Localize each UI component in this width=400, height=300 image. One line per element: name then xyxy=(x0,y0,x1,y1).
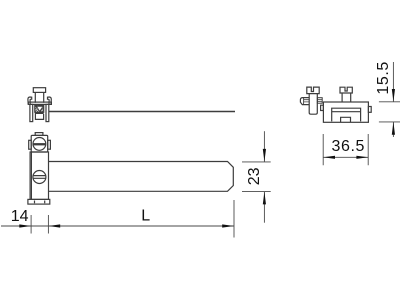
plan view: screw 1 slot xyxy=(33,143,45,145)
side view: left screw head xyxy=(307,87,319,94)
dimension 23: lower tail xyxy=(263,192,265,223)
svg-text:15.5: 15.5 xyxy=(375,61,392,95)
arrow 15.5 bottom (points up) xyxy=(392,122,395,135)
front view: screw neck xyxy=(35,92,43,102)
arrow 23 top (points down) xyxy=(263,149,266,162)
front view: left wing xyxy=(28,97,32,104)
side view: top screw head xyxy=(340,87,352,93)
front view: left leg xyxy=(30,104,33,121)
plan view: foot ticks xyxy=(35,201,45,204)
dimension L: extension line left xyxy=(47,215,49,234)
plan view: screw 2 circle xyxy=(33,171,46,184)
plan view: busbar with chamfered end xyxy=(49,162,234,192)
dimension 36.5: extension lines xyxy=(323,134,368,165)
side view: right ridge block xyxy=(317,98,322,104)
svg-text:36.5: 36.5 xyxy=(332,138,366,155)
dimension L: extension line right xyxy=(233,200,235,238)
front view: lower tray xyxy=(35,114,43,119)
front view: screw head xyxy=(33,88,45,93)
side view: body xyxy=(323,102,368,122)
front view: clamp jaw white V xyxy=(37,106,44,111)
arrow 23 bottom (points up) xyxy=(263,192,266,205)
plan view: screw top tab xyxy=(35,133,43,136)
side view: left claw xyxy=(300,98,309,105)
arrow 36.5 right (points right) xyxy=(356,156,368,159)
plan view: right side tab xyxy=(48,140,51,149)
side view: top screw shank xyxy=(342,93,351,102)
dimension 15.5: upper tail xyxy=(392,62,394,102)
svg-text:23: 23 xyxy=(246,167,263,185)
plan view: head block xyxy=(31,135,48,152)
front view: clamp box xyxy=(35,105,44,112)
plan view: left side tab xyxy=(29,140,32,149)
svg-text:L: L xyxy=(141,208,150,225)
plan view: body xyxy=(30,152,48,199)
dimension 14: extension line left xyxy=(30,215,32,234)
front view: right leg xyxy=(46,104,49,121)
side view: left claw divider xyxy=(303,98,305,105)
front view: busbar edge line xyxy=(49,111,235,113)
side view: right nub xyxy=(368,107,371,113)
side view: left screw shank xyxy=(309,94,317,115)
side view: left claw ridges xyxy=(304,100,310,102)
dimension 15.5: extension lines xyxy=(379,102,400,122)
plan view: body left edge thick xyxy=(30,152,32,199)
front view: clamp box bottom band xyxy=(35,112,44,114)
dimension 23: extension lines xyxy=(242,162,271,192)
side view: bottom notch xyxy=(341,117,351,122)
side view: inner profile xyxy=(332,108,361,121)
side view: left nub xyxy=(321,105,324,110)
dimension 14/L: main line xyxy=(1,225,234,227)
dimension 36.5: main line xyxy=(323,156,368,158)
arrow L left (points left) xyxy=(48,224,60,227)
plan view: screw 2 slot xyxy=(33,176,46,179)
plan view: foot xyxy=(28,199,50,204)
arrow 14 left (points right) xyxy=(19,224,31,227)
side view: right ridge lines xyxy=(317,100,322,102)
front view: right wing xyxy=(48,97,52,104)
front view: collar band xyxy=(28,102,51,104)
arrow 36.5 left (points left) xyxy=(323,156,335,159)
dimension 23: upper tail xyxy=(263,131,265,162)
front view: clamp box crosshatch xyxy=(35,105,44,112)
plan view: screw 1 circle xyxy=(33,138,46,151)
svg-text:14: 14 xyxy=(11,208,29,225)
arrow L right (points right) xyxy=(222,224,234,227)
dimension 15.5: lower tail xyxy=(392,122,394,137)
arrow 15.5 top (points down) xyxy=(392,89,395,102)
